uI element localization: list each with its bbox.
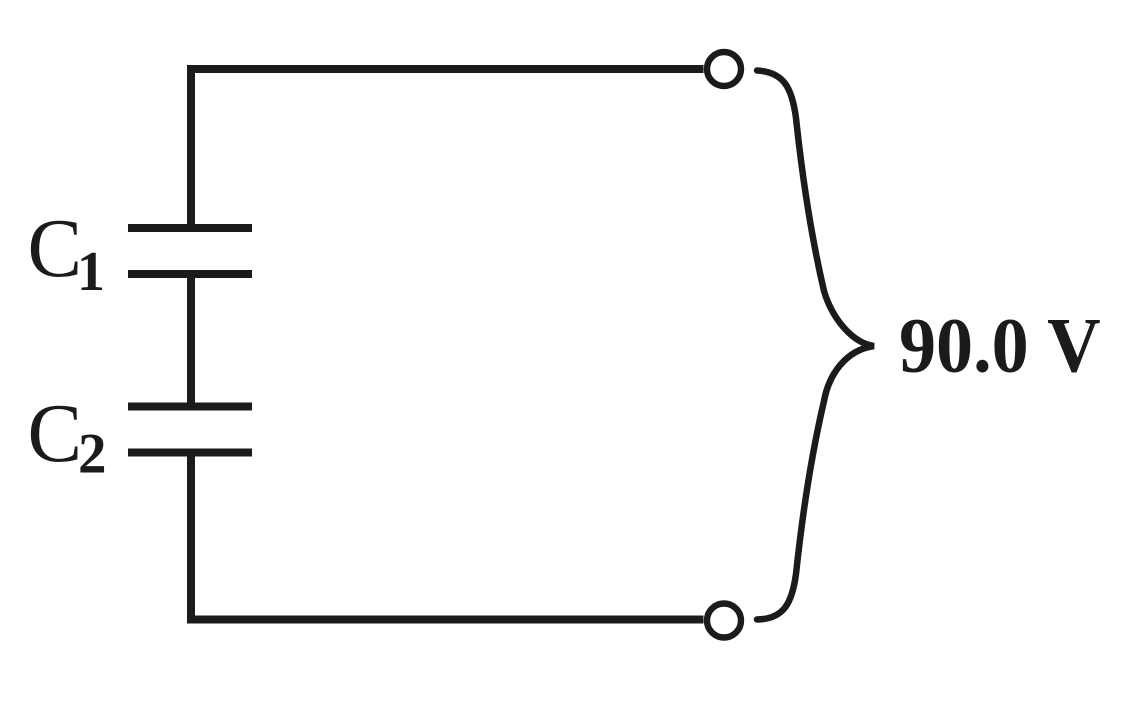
label C2: [28, 386, 107, 485]
svg-text:C: C: [28, 201, 83, 294]
capacitor C2: [128, 407, 252, 453]
svg-text:1: 1: [77, 241, 105, 303]
svg-text:2: 2: [78, 423, 107, 486]
svg-text:C: C: [28, 386, 83, 479]
svg-text:90.0 V: 90.0 V: [899, 303, 1101, 389]
wire: bottom vertical lead + bottom horizontal run to bottom terminal: [191, 453, 704, 620]
wire: between C1 and C2: [187, 274, 195, 407]
terminal: top open circle: [707, 52, 741, 86]
capacitor C1: [128, 228, 252, 274]
label C1: [28, 201, 106, 303]
wire: left vertical lead + top horizontal run to top terminal: [191, 69, 704, 228]
terminal: bottom open circle: [707, 604, 741, 638]
brace: voltage source indicator: [757, 71, 874, 620]
